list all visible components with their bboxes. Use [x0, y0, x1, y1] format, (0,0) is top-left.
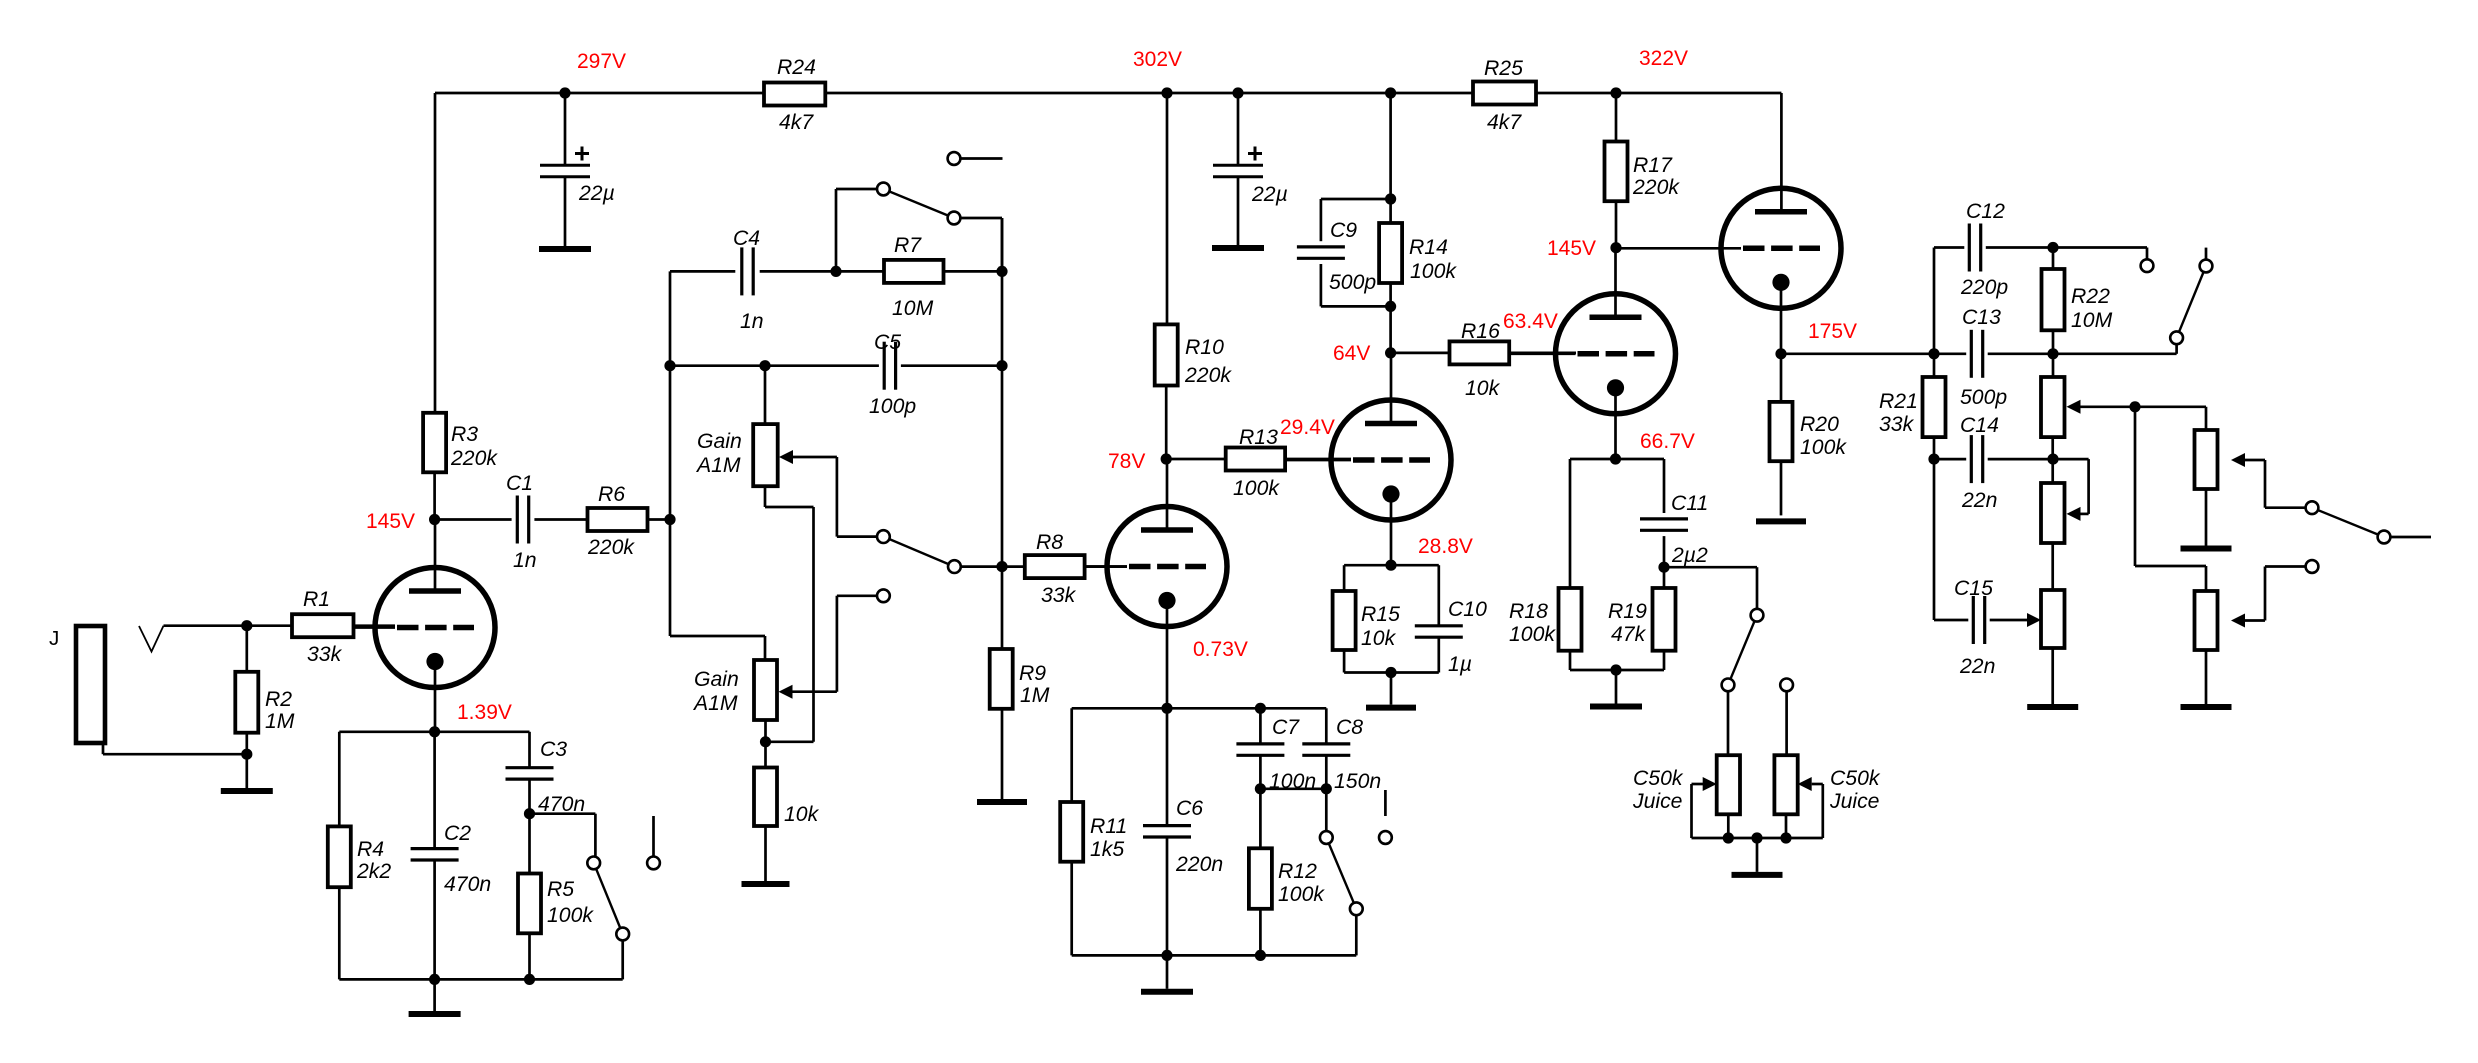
wire juice2 wiper	[1786, 777, 1823, 838]
wire C12 to open contact	[2053, 248, 2147, 260]
svg-text:4k7: 4k7	[1487, 111, 1522, 134]
svg-text:47k: 47k	[1611, 623, 1647, 646]
capacitor C3	[506, 738, 586, 816]
node R6 out	[664, 514, 675, 525]
node 64V	[1333, 342, 1396, 365]
switch S3 arm	[883, 537, 954, 567]
svg-text:10k: 10k	[1361, 627, 1397, 650]
wire C4 left vertical	[670, 271, 765, 660]
capacitor C9 bracket	[1297, 199, 1391, 306]
node juice2 bottom	[1780, 832, 1791, 843]
node pot2 bottom	[760, 736, 771, 747]
node gnd rail C6	[1161, 950, 1172, 961]
svg-text:322V: 322V	[1639, 47, 1688, 70]
wire pot2 wiper	[779, 685, 837, 699]
wire R18R19 bottom rail	[1570, 669, 1664, 672]
node R8 junction	[996, 561, 1007, 572]
wire R20 leads	[1780, 354, 1783, 516]
node juice1 bottom	[1723, 832, 1734, 843]
wire gnd stub juice	[1756, 838, 1759, 872]
svg-text:C6: C6	[1176, 797, 1203, 820]
wire C10 leads	[1437, 565, 1440, 672]
node C7 bottom	[1255, 783, 1266, 794]
svg-text:33k: 33k	[1879, 413, 1915, 436]
wire R1 to V1 grid	[354, 624, 396, 627]
svg-text:1.39V: 1.39V	[457, 701, 512, 724]
node R14 top	[1385, 193, 1396, 204]
svg-text:1M: 1M	[1020, 684, 1050, 707]
wire R3 to 145V node	[433, 472, 436, 519]
potentiometer tone A	[2041, 354, 2065, 437]
svg-text:145V: 145V	[366, 510, 415, 533]
resistor R15	[1333, 591, 1400, 650]
svg-text:R17: R17	[1633, 154, 1673, 177]
svg-text:C4: C4	[733, 227, 760, 250]
wire pot2 bottom	[766, 720, 814, 742]
svg-text:A1M: A1M	[692, 692, 738, 715]
svg-text:R7: R7	[894, 234, 922, 257]
svg-text:1µ: 1µ	[1448, 653, 1472, 676]
wire R3 top lead	[434, 93, 437, 413]
svg-text:28.8V: 28.8V	[1418, 535, 1473, 558]
svg-text:100k: 100k	[1278, 883, 1325, 906]
node C4-R7 left	[830, 266, 841, 277]
wire R13 leads	[1166, 458, 1351, 461]
svg-text:100k: 100k	[1509, 623, 1556, 646]
ground input	[221, 788, 273, 794]
resistor R13	[1226, 426, 1285, 500]
svg-text:10M: 10M	[2071, 309, 2113, 332]
wire S4 to gnd rail	[1355, 915, 1358, 955]
switch S7 contact b	[2378, 531, 2391, 544]
svg-text:C2: C2	[444, 822, 471, 845]
ground V2 cathode	[1141, 989, 1193, 995]
node potA wiper bus	[2129, 401, 2140, 412]
svg-text:10k: 10k	[784, 803, 820, 826]
wire C11 leads	[1663, 459, 1666, 567]
wire potD bottom	[2205, 489, 2208, 546]
resistor R5	[518, 874, 594, 934]
potentiometer Gain A1M (1)	[695, 366, 778, 487]
wire juice1 bottom	[1727, 814, 1730, 838]
wire pot1 bottom jog	[765, 486, 814, 742]
resistor R9	[990, 649, 1050, 709]
resistor R1	[292, 588, 354, 666]
wire pot1 wiper	[779, 450, 877, 537]
resistor R2	[235, 672, 294, 733]
wire C7 leads	[1259, 708, 1262, 789]
capacitor C8	[1302, 716, 1381, 793]
svg-text:R11: R11	[1090, 815, 1127, 838]
ground 22u-1	[539, 246, 591, 252]
node C8 bottom	[1321, 783, 1332, 794]
svg-text:R5: R5	[547, 878, 574, 901]
node gnd rail R12	[1255, 950, 1266, 961]
ground R20	[1756, 518, 1806, 524]
svg-text:150n: 150n	[1334, 770, 1381, 793]
wire S6 to rail	[2175, 344, 2178, 354]
svg-text:33k: 33k	[1041, 584, 1077, 607]
node gnd rail C2	[429, 974, 440, 985]
svg-text:220k: 220k	[1184, 364, 1232, 387]
svg-text:Juice: Juice	[1829, 790, 1879, 813]
node C14 left	[1928, 454, 1939, 465]
resistor R19	[1608, 588, 1676, 651]
wire R10 to 78V	[1165, 386, 1168, 460]
svg-text:22n: 22n	[1961, 489, 1997, 512]
capacitor C11	[1640, 492, 1708, 567]
svg-text:500p: 500p	[1329, 271, 1376, 294]
wire R14 top lead	[1389, 93, 1392, 223]
svg-text:R12: R12	[1278, 860, 1317, 883]
capacitor C-filter1 22u	[540, 147, 615, 206]
triode V1	[354, 520, 496, 732]
wire C12 leads	[1934, 246, 2053, 249]
svg-text:R9: R9	[1019, 662, 1046, 685]
potentiometer tone C	[2041, 590, 2065, 648]
node tone right	[2047, 348, 2058, 359]
wire R14 to 64V	[1389, 283, 1392, 353]
svg-text:C9: C9	[1330, 219, 1357, 242]
node V4 cath gnd	[1610, 664, 1621, 675]
svg-text:22µ: 22µ	[578, 182, 615, 205]
wire R16 leads	[1391, 352, 1576, 355]
node 175V	[1775, 320, 1857, 359]
node V3 cathode	[1385, 535, 1472, 571]
wire S3 to R8 node	[961, 565, 1002, 568]
ground V1 cathode	[409, 1011, 461, 1017]
switch S2 arm	[883, 189, 954, 218]
switch S7 arm	[2312, 508, 2384, 537]
svg-text:63.4V: 63.4V	[1503, 310, 1558, 333]
svg-text:C50k: C50k	[1830, 767, 1881, 790]
wire bus to potE	[2135, 407, 2206, 591]
node 2u2	[1658, 562, 1669, 573]
wire R2 leads	[245, 626, 248, 755]
svg-text:1M: 1M	[265, 710, 295, 733]
svg-text:66.7V: 66.7V	[1640, 430, 1695, 453]
node 145V	[366, 510, 440, 533]
node tone left	[1928, 348, 1939, 359]
wire 22u-1 leads	[564, 93, 567, 246]
wire R15 leads	[1343, 565, 1346, 672]
node V2 cathode	[1161, 638, 1247, 714]
wire C8 leads	[1325, 708, 1328, 789]
resistor R10	[1155, 324, 1233, 387]
svg-text:1n: 1n	[740, 310, 764, 333]
wire potE wiper	[2231, 567, 2306, 628]
switch S7 contact a	[2306, 501, 2319, 514]
text 29.4V	[1280, 416, 1335, 439]
wire R6 to node	[648, 518, 671, 521]
node 302V-cap	[1232, 87, 1243, 98]
svg-text:10k: 10k	[1465, 377, 1501, 400]
svg-text:R6: R6	[598, 483, 625, 506]
capacitor C2	[411, 822, 492, 896]
wire R7 switch up	[836, 189, 877, 271]
switch S6 contact b	[2170, 331, 2183, 344]
potentiometer tone B	[2041, 459, 2065, 543]
node 1.39V	[429, 701, 512, 737]
wire V5 plate lead	[1780, 93, 1783, 212]
wire bright switch feed	[530, 814, 596, 857]
wire input V-symbol	[139, 626, 164, 652]
wire C6 leads	[1166, 708, 1169, 955]
svg-text:22n: 22n	[1959, 655, 1995, 678]
svg-text:302V: 302V	[1133, 48, 1182, 71]
switch S5 contact b	[1722, 679, 1735, 692]
wire S5 to juice1	[1727, 691, 1730, 755]
wire gnd stub V1	[433, 979, 436, 1011]
svg-text:2µ2: 2µ2	[1671, 544, 1708, 567]
svg-text:100k: 100k	[1800, 436, 1847, 459]
svg-text:R3: R3	[451, 423, 478, 446]
svg-text:R14: R14	[1409, 236, 1448, 259]
wire R8 leads	[1002, 565, 1127, 568]
switch S1 contact b	[616, 928, 629, 941]
wire jack sleeve	[103, 743, 247, 754]
jack J	[49, 626, 105, 743]
node pot1 top	[759, 360, 770, 371]
svg-text:Gain: Gain	[694, 668, 739, 691]
node juice gnd	[1751, 832, 1762, 843]
node 145V-2	[1547, 237, 1622, 260]
wire R21 leads	[1933, 354, 1936, 459]
svg-text:29.4V: 29.4V	[1280, 416, 1335, 439]
wire R7 leads	[836, 270, 1002, 273]
wire potE bottom	[2205, 650, 2208, 704]
resistor R17	[1605, 142, 1681, 202]
wire C5 rail right	[901, 364, 1002, 367]
svg-text:297V: 297V	[577, 50, 626, 73]
resistor R22	[2042, 269, 2113, 332]
wire juice1 wiper	[1692, 777, 1729, 838]
wire V2 cath gnd rail	[1072, 954, 1357, 957]
svg-text:C5: C5	[874, 331, 901, 354]
node C7 top	[1255, 703, 1266, 714]
switch S2 contact b	[948, 212, 961, 225]
resistor R16	[1450, 320, 1510, 400]
svg-text:33k: 33k	[307, 643, 343, 666]
svg-text:220k: 220k	[587, 536, 635, 559]
wire gnd stub V2	[1166, 955, 1169, 988]
node C14 right	[2047, 454, 2058, 465]
capacitor C10	[1415, 598, 1487, 676]
wire potD wiper	[2231, 453, 2306, 508]
node 78V	[1108, 450, 1172, 473]
switch S5 open contact	[1780, 679, 1793, 692]
wire C12 left branch	[1933, 248, 1936, 354]
svg-text:4k7: 4k7	[779, 111, 814, 134]
text 63.4V	[1503, 310, 1558, 333]
svg-text:C14: C14	[1960, 414, 1999, 437]
wire potB2 wiper jog	[2053, 459, 2089, 521]
wire potC bottom	[2051, 648, 2054, 704]
wire R22 leads	[2052, 248, 2055, 354]
switch S5 contact a	[1751, 609, 1764, 622]
resistor 10k tail	[754, 768, 820, 827]
switch S7 open contact	[2306, 560, 2319, 573]
svg-text:100k: 100k	[1410, 260, 1457, 283]
wire potA wiper	[2067, 400, 2136, 414]
capacitor C6	[1143, 797, 1223, 876]
ground potC	[2027, 704, 2078, 710]
svg-text:C50k: C50k	[1633, 767, 1684, 790]
resistor R12	[1249, 848, 1325, 909]
svg-text:R21: R21	[1879, 390, 1918, 413]
svg-text:145V: 145V	[1547, 237, 1596, 260]
resistor R24	[764, 56, 825, 134]
resistor R7	[884, 234, 944, 320]
svg-text:R15: R15	[1361, 603, 1400, 626]
capacitor C14	[1960, 414, 1999, 512]
svg-text:C1: C1	[506, 472, 533, 495]
wire R15C10 bottom rail	[1344, 671, 1439, 674]
wire gnd stub V3	[1390, 673, 1393, 705]
ground 22u-2	[1212, 245, 1264, 251]
svg-text:C8: C8	[1336, 716, 1363, 739]
resistor R21	[1879, 377, 1946, 437]
potentiometer out D	[2195, 430, 2218, 489]
switch S4 contact a	[1320, 831, 1333, 844]
svg-text:C10: C10	[1448, 598, 1487, 621]
potentiometer C50k Juice (2)	[1774, 755, 1880, 814]
node R7 right	[996, 266, 1007, 277]
wire C3 leads	[528, 732, 531, 814]
node R14 top rail	[1385, 87, 1396, 98]
svg-text:0.73V: 0.73V	[1193, 638, 1248, 661]
capacitor C1	[506, 472, 537, 572]
svg-text:R24: R24	[777, 56, 816, 79]
svg-text:100k: 100k	[1233, 477, 1280, 500]
svg-text:78V: 78V	[1108, 450, 1145, 473]
ground potD	[2181, 546, 2232, 552]
wire juice2 bottom	[1785, 814, 1788, 838]
switch S1 arm	[594, 863, 623, 934]
svg-text:Juice: Juice	[1632, 790, 1682, 813]
wire 2u2 to S5	[1664, 567, 1757, 609]
ground V4 cathode	[1590, 704, 1642, 710]
wire input to R1	[164, 624, 293, 627]
wire R18C11 top rail	[1570, 458, 1664, 461]
wire C7-C8 link	[1260, 787, 1326, 790]
switch S6 contact nc	[2200, 248, 2213, 273]
switch S4 contact b	[1350, 902, 1363, 915]
capacitor C15	[1954, 577, 1995, 678]
svg-text:R20: R20	[1800, 413, 1839, 436]
svg-text:64V: 64V	[1333, 342, 1370, 365]
svg-text:220n: 220n	[1175, 853, 1223, 876]
svg-text:R19: R19	[1608, 600, 1647, 623]
switch S3 open contact	[837, 589, 890, 691]
svg-text:R25: R25	[1484, 57, 1523, 80]
wire potA bottom	[2051, 437, 2054, 459]
switch S5 arm	[1728, 615, 1757, 685]
wire R5 leads	[528, 814, 531, 980]
wire cathode top rail V1	[339, 730, 529, 733]
wire V1 cathode gnd rail	[339, 978, 622, 981]
wire 145V to C1	[435, 518, 512, 521]
wire C15 branch	[1934, 459, 1968, 620]
svg-text:1k5: 1k5	[1090, 838, 1124, 861]
svg-text:C7: C7	[1272, 716, 1300, 739]
svg-text:22µ: 22µ	[1251, 183, 1288, 206]
svg-text:R8: R8	[1036, 531, 1063, 554]
svg-text:220k: 220k	[450, 447, 498, 470]
ground V3 cathode	[1366, 705, 1416, 711]
triode V2	[1085, 459, 1227, 708]
node input gnd	[241, 749, 252, 760]
switch S6 open contact	[2141, 259, 2154, 272]
resistor R18	[1509, 588, 1582, 651]
wire R12 leads	[1259, 789, 1262, 956]
ground 10k	[742, 881, 790, 887]
resistor R11	[1060, 802, 1127, 862]
wire C15 to potC wiper	[1990, 613, 2041, 627]
svg-text:R18: R18	[1509, 600, 1548, 623]
svg-text:100p: 100p	[869, 395, 916, 418]
resistor R4	[328, 826, 392, 887]
potentiometer C50k Juice (1)	[1632, 755, 1740, 814]
wire B+ 297V rail	[435, 92, 1781, 95]
svg-text:C15: C15	[1954, 577, 1993, 600]
potentiometer out E	[2195, 591, 2218, 650]
wire R19 leads	[1663, 567, 1666, 670]
capacitor C4	[733, 227, 764, 333]
svg-text:Gain: Gain	[697, 430, 742, 453]
wire C2 leads	[433, 732, 436, 980]
svg-text:C3: C3	[540, 738, 567, 761]
node 302V	[1133, 48, 1182, 99]
svg-text:R1: R1	[303, 588, 330, 611]
switch S3 contact b	[948, 560, 961, 573]
potentiometer Gain A1M (2)	[692, 660, 777, 720]
switch S1 contact a	[587, 857, 600, 870]
svg-text:C11: C11	[1671, 492, 1708, 515]
wire juice2 top	[1785, 691, 1788, 755]
wire C1 to R6	[534, 518, 587, 521]
node C4-C5 left	[664, 360, 675, 371]
node 322V	[1610, 47, 1688, 99]
switch S4 open contact	[1379, 790, 1392, 844]
wire S1 to gnd rail	[621, 940, 624, 979]
wire R10k leads	[764, 742, 767, 881]
wire R17 top lead	[1615, 93, 1618, 142]
svg-text:175V: 175V	[1808, 320, 1857, 343]
resistor R20	[1770, 402, 1848, 461]
svg-text:220k: 220k	[1632, 176, 1680, 199]
node R14 bottom	[1385, 301, 1396, 312]
wire R18 leads	[1569, 459, 1572, 670]
capacitor C-filter2 22u	[1213, 147, 1288, 207]
triode V4	[1509, 248, 1675, 459]
switch S4 arm	[1326, 838, 1356, 909]
node V3 cath bottom	[1385, 667, 1396, 678]
wire juice gnd rail	[1728, 837, 1786, 840]
svg-text:R13: R13	[1239, 426, 1278, 449]
wire R15C10 top rail	[1344, 564, 1439, 567]
wire C4 lead right	[760, 270, 836, 273]
switch S2 contact a	[877, 183, 890, 196]
node C3-R5	[524, 808, 535, 819]
resistor R25	[1473, 57, 1536, 134]
resistor R6	[587, 483, 648, 559]
svg-text:A1M: A1M	[695, 454, 741, 477]
svg-text:R2: R2	[265, 688, 292, 711]
wire R4 leads	[338, 732, 341, 980]
node 66.7V	[1610, 430, 1695, 465]
resistor R14	[1379, 223, 1457, 283]
